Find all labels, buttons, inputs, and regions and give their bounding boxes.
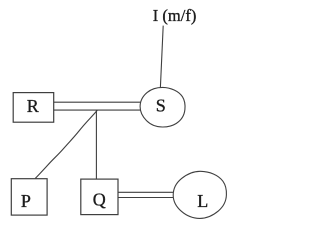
svg-text:I (m/f): I (m/f) [153, 6, 197, 25]
wire junction to P, diagonal [35, 110, 97, 178]
svg-text:R: R [27, 96, 39, 116]
svg-text:S: S [156, 96, 166, 116]
svg-text:L: L [197, 191, 208, 211]
wire double line Q to L, upper [118, 191, 173, 193]
wire double line Q to L, lower [118, 197, 173, 199]
circle L [173, 171, 226, 218]
wire from label I down to circle S [160, 26, 163, 88]
svg-text:Q: Q [93, 189, 106, 209]
circle S [140, 87, 185, 127]
wire double line R to S, upper [54, 101, 141, 103]
box R [13, 93, 54, 123]
box P [11, 179, 47, 215]
svg-text:P: P [21, 191, 31, 211]
wire double line R to S, lower [54, 109, 140, 111]
box Q [81, 179, 118, 215]
wire junction to Q, vertical [95, 110, 97, 179]
